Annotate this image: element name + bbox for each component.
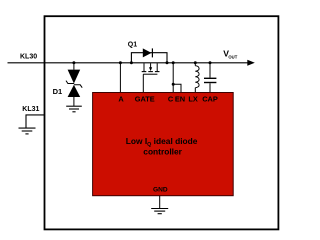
ground below KL31 <box>19 128 36 134</box>
svg-text:controller: controller <box>143 146 182 156</box>
junction: EN tap on C wire <box>172 83 175 86</box>
junction: Q1 branch left on rail <box>130 61 133 64</box>
svg-text:CAP: CAP <box>202 95 218 104</box>
ground below GND pin <box>151 209 168 214</box>
svg-text:LX: LX <box>188 95 198 104</box>
svg-text:GATE: GATE <box>135 95 155 104</box>
junction: Q1 branch right on rail <box>166 61 169 64</box>
wire KL30 rail <box>8 62 250 64</box>
svg-text:C: C <box>168 95 174 104</box>
wire KL31 to ground <box>26 115 45 128</box>
svg-text:KL30: KL30 <box>20 54 37 61</box>
diode D1 (bidirectional TVS) <box>66 63 82 106</box>
wire Q1 body-diode branch <box>131 53 167 63</box>
transistor Q1 (MOSFET symbol) <box>142 63 160 74</box>
controller IC U1: Low Iq ideal diode controller <box>93 93 234 196</box>
wire pin A <box>119 63 121 93</box>
capacitor C (VOUT to CAP) <box>204 63 216 93</box>
wire gate of Q1 to GATE pin <box>142 74 144 92</box>
output arrow to VOUT <box>247 60 255 66</box>
junction: pin A on rail <box>119 61 122 64</box>
inductor L (VOUT to LX) <box>195 63 199 93</box>
svg-text:A: A <box>118 95 124 104</box>
junction: D1 on rail <box>72 61 75 64</box>
svg-text:KL31: KL31 <box>22 106 39 113</box>
svg-text:Q1: Q1 <box>128 41 137 48</box>
wire GND pin <box>159 196 161 209</box>
junction: capacitor on rail <box>209 61 212 64</box>
wire pin C <box>172 63 174 93</box>
junction: inductor on rail <box>194 61 197 64</box>
wire pin EN <box>173 84 181 92</box>
svg-text:D1: D1 <box>53 87 63 96</box>
svg-text:EN: EN <box>175 95 185 104</box>
junction: pin C on rail <box>172 61 175 64</box>
svg-text:GND: GND <box>153 186 168 193</box>
body diode of Q1 <box>143 48 153 57</box>
ground below D1 <box>66 106 82 112</box>
